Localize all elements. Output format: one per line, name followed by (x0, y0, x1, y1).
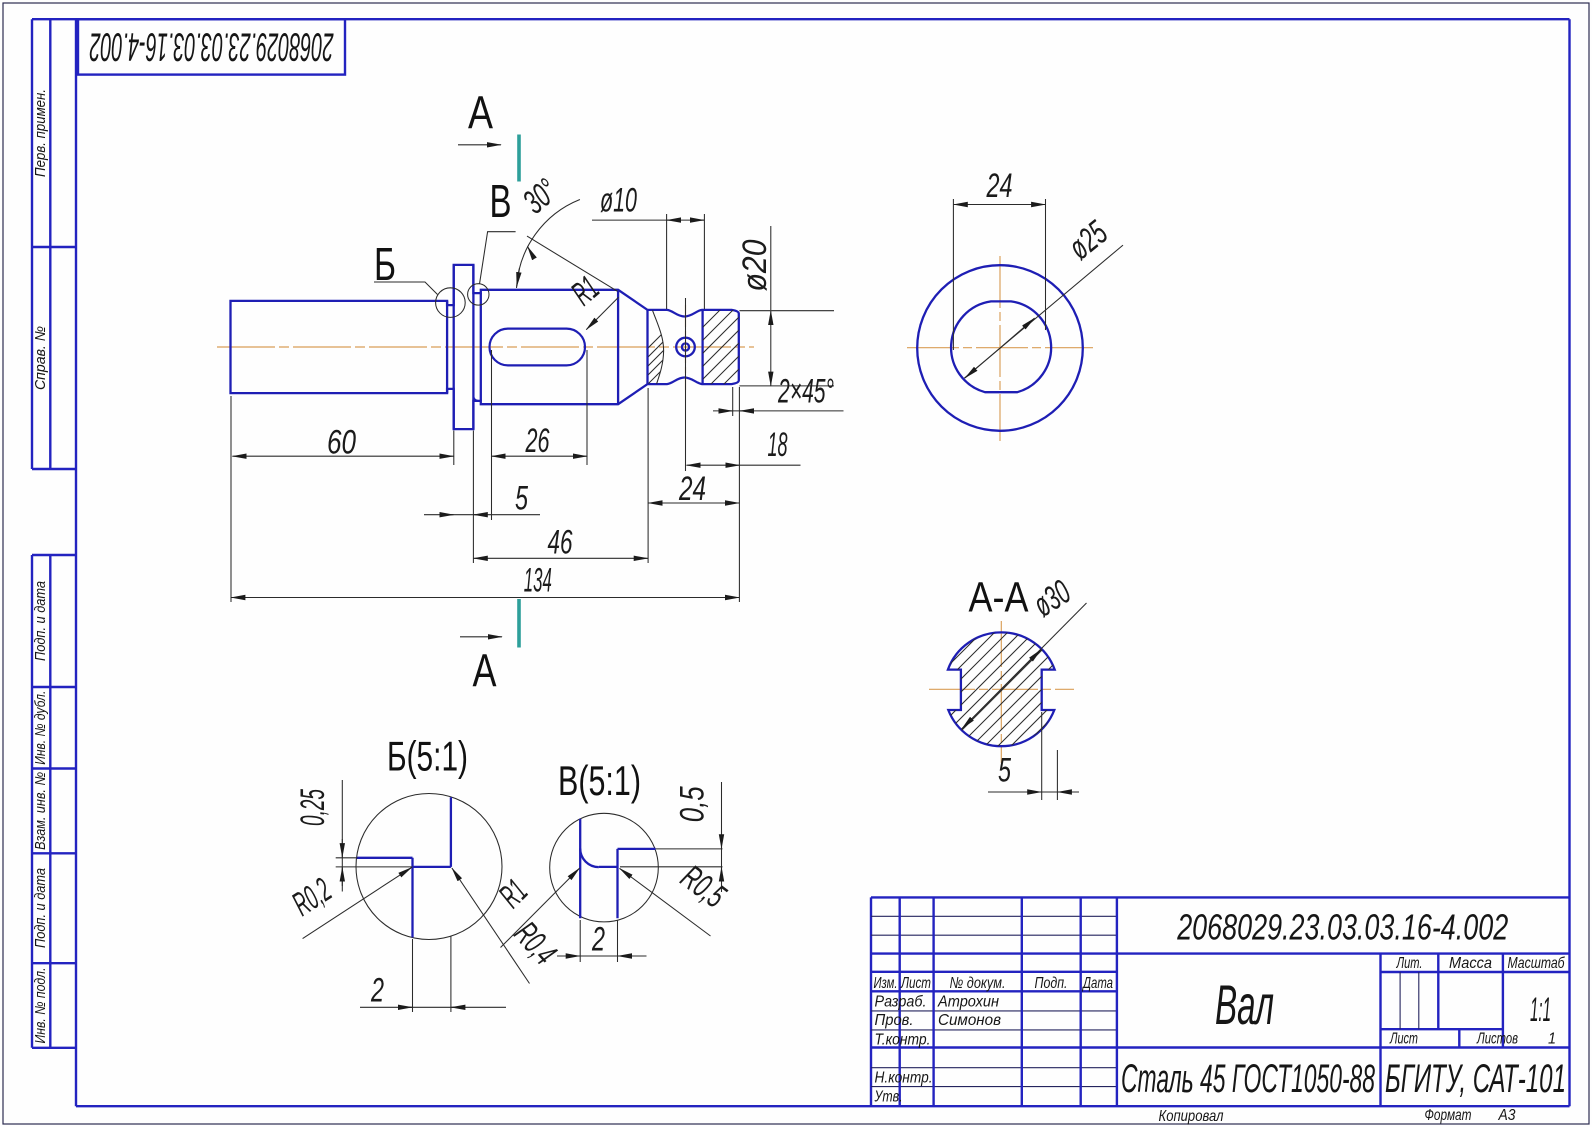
lit massa masshtab (1389, 955, 1565, 1048)
title block texts: signature rows (874, 994, 1001, 1106)
flange left face (453, 265, 455, 429)
detail V profile: right wall vertical (616, 849, 618, 918)
d30 section right face (617, 290, 619, 404)
dim 2x45 chamfer (713, 373, 844, 411)
top-left corner stamp box (78, 19, 345, 74)
shaft face line at groove B (446, 301, 448, 393)
svg-text:Формат: Формат (1425, 1107, 1472, 1124)
svg-text:5: 5 (515, 480, 528, 518)
dim 24 (right) (648, 470, 739, 508)
svg-text:А3: А3 (1498, 1107, 1516, 1124)
svg-text:Инв. № подл.: Инв. № подл. (33, 968, 49, 1044)
svg-text:Т.контр.: Т.контр. (875, 1032, 931, 1049)
callout leader B (374, 282, 438, 295)
svg-text:ø20: ø20 (736, 239, 774, 291)
30 deg reference line (527, 236, 618, 291)
dim 134 (231, 562, 739, 600)
left margin box: Inv. No podl. (32, 968, 76, 1048)
svg-text:Вал: Вал (1215, 973, 1274, 1036)
extension lines (231, 214, 739, 602)
svg-text:Н.контр.: Н.контр. (875, 1070, 933, 1087)
detail B profile: shoulder vertical (450, 797, 452, 867)
leader R0,2 (286, 867, 412, 938)
svg-text:Б(5:1): Б(5:1) (387, 733, 468, 780)
left margin box: Podp. i data (upper) (32, 555, 76, 1048)
svg-text:18: 18 (768, 426, 788, 464)
title block grid (871, 897, 1570, 1106)
d20 hatch boundary face (701, 310, 703, 384)
svg-text:В: В (490, 175, 512, 227)
d30 section left face (480, 293, 482, 401)
dim 0,5 (620, 782, 723, 892)
svg-text:24: 24 (678, 470, 706, 508)
hole vertical centerline (685, 305, 687, 390)
callout leader V (480, 232, 516, 284)
svg-text:А: А (473, 645, 497, 697)
section cut mark top (517, 135, 521, 182)
svg-text:В(5:1): В(5:1) (558, 757, 641, 804)
left margin box: Podp. i data (lower) (32, 868, 76, 963)
detail V profile: left wall vertical (579, 819, 581, 919)
section cut arrow top (458, 144, 501, 146)
svg-text:2068029.23.03.03.16-4.002: 2068029.23.03.03.16-4.002 (89, 25, 333, 69)
left margin box: Sprav. No (32, 326, 76, 469)
svg-text:Масштаб: Масштаб (1508, 955, 1566, 972)
left margin box: Vzam. inv. No (32, 772, 76, 854)
leader R1 (detail V) (492, 868, 580, 947)
svg-text:Дата: Дата (1082, 975, 1113, 992)
leader R0,4 (452, 868, 564, 984)
dim 18 (687, 426, 801, 465)
svg-text:Подп. и дата: Подп. и дата (33, 581, 49, 661)
left margin box: Inv. No dubl. (32, 691, 76, 769)
svg-text:Лист: Лист (900, 975, 931, 992)
svg-text:Симонов: Симонов (938, 1012, 1001, 1029)
svg-text:Взам. инв. №: Взам. инв. № (33, 772, 49, 850)
svg-text:Лист: Лист (1389, 1031, 1418, 1048)
svg-text:Разраб.: Разраб. (875, 994, 927, 1011)
dim 26 (492, 422, 588, 460)
leader R0,5 (620, 858, 733, 936)
svg-text:5: 5 (998, 752, 1011, 790)
leader R1 (keyway) (564, 269, 618, 329)
svg-text:2: 2 (591, 921, 605, 959)
svg-text:46: 46 (548, 524, 573, 562)
flange right face (472, 265, 474, 429)
section A-A centerlines (929, 621, 1074, 763)
dim d20 (736, 226, 834, 386)
leader d25 (964, 214, 1123, 379)
svg-text:2: 2 (370, 972, 384, 1010)
svg-text:Перв. примен.: Перв. примен. (33, 89, 49, 177)
svg-text:БГИТУ, САТ-101: БГИТУ, САТ-101 (1385, 1057, 1566, 1101)
svg-text:134: 134 (524, 562, 552, 600)
svg-text:Копировал: Копировал (1159, 1108, 1224, 1125)
svg-text:24: 24 (986, 167, 1013, 205)
svg-text:26: 26 (525, 422, 550, 460)
local section break (wavy) line (653, 310, 664, 384)
svg-text:Сталь 45 ГОСТ1050-88: Сталь 45 ГОСТ1050-88 (1121, 1057, 1375, 1101)
dim 24 (end view) (953, 167, 1045, 350)
svg-text:Б: Б (374, 238, 396, 290)
svg-text:Атрохин: Атрохин (937, 994, 999, 1011)
callout circle V (neck groove) (468, 284, 489, 305)
section cut mark bottom (517, 599, 521, 648)
section A-A outline (d30 with keyway notches) (948, 632, 1055, 746)
svg-text:А: А (468, 87, 493, 139)
title block texts: header row (874, 975, 1114, 992)
svg-text:2068029.23.03.03.16-4.002: 2068029.23.03.03.16-4.002 (1176, 907, 1508, 948)
svg-text:1: 1 (1548, 1031, 1556, 1048)
shaft outline (231, 265, 739, 429)
dim 60 (232, 424, 453, 462)
svg-text:Справ. №: Справ. № (33, 326, 49, 390)
svg-text:2×45°: 2×45° (777, 373, 834, 411)
dim 2 (detail V) (557, 920, 647, 962)
svg-text:Изм.: Изм. (874, 975, 898, 992)
end view inner circle d25 with flats (951, 301, 1051, 392)
svg-text:Подп.: Подп. (1035, 975, 1068, 992)
dim 46 (474, 524, 648, 562)
svg-text:ø10: ø10 (600, 182, 637, 220)
detail B profile: upper surface (357, 857, 413, 859)
svg-text:А-А: А-А (969, 574, 1029, 622)
svg-text:Утв.: Утв. (874, 1089, 903, 1106)
detail V profile: upper surface right (618, 848, 656, 850)
svg-text:Масса: Масса (1449, 955, 1492, 972)
left margin box: Perv. primen. (32, 19, 76, 469)
detail B(5:1) circle (356, 794, 502, 940)
footer labels (1159, 1107, 1516, 1125)
detail B profile: groove bottom (413, 866, 451, 868)
svg-text:Подп. и дата: Подп. и дата (33, 868, 49, 948)
section cut arrow bottom (460, 636, 502, 638)
detail V profile: fillet R1 (580, 849, 599, 868)
dim 5 (section A-A) (988, 712, 1079, 800)
end view outer circle (flange) (917, 265, 1083, 431)
end view centerlines (907, 256, 1093, 441)
keyway slot (490, 329, 586, 366)
svg-text:№ докум.: № докум. (950, 975, 1006, 992)
svg-text:0,25: 0,25 (294, 789, 332, 826)
svg-text:60: 60 (327, 424, 356, 462)
d20 section left face (646, 310, 648, 384)
cross hole outer circle (676, 338, 695, 357)
dim 5 (flange width) (424, 480, 540, 518)
svg-text:0,5: 0,5 (674, 786, 712, 822)
svg-text:1:1: 1:1 (1530, 991, 1551, 1029)
detail B profile: flange face vertical (411, 858, 413, 938)
dim 2 (detail B) (360, 936, 506, 1012)
dim d10 (592, 182, 704, 221)
svg-text:Пров.: Пров. (875, 1012, 914, 1029)
leader d30 (962, 573, 1087, 729)
detail V profile: groove bottom (599, 866, 618, 868)
V groove fillet bottom (main view) (474, 397, 479, 401)
centerline main axis (217, 346, 754, 348)
cross hole inner circle (682, 343, 689, 350)
angle 30 deg arc (516, 172, 580, 288)
detail V(5:1) circle (550, 813, 659, 922)
svg-text:Листов: Листов (1476, 1031, 1518, 1048)
dim 0,25 (294, 780, 413, 892)
svg-text:Инв. № дубл.: Инв. № дубл. (33, 691, 49, 765)
callout circle B (flange groove) (436, 288, 466, 318)
svg-text:Лит.: Лит. (1396, 955, 1423, 972)
